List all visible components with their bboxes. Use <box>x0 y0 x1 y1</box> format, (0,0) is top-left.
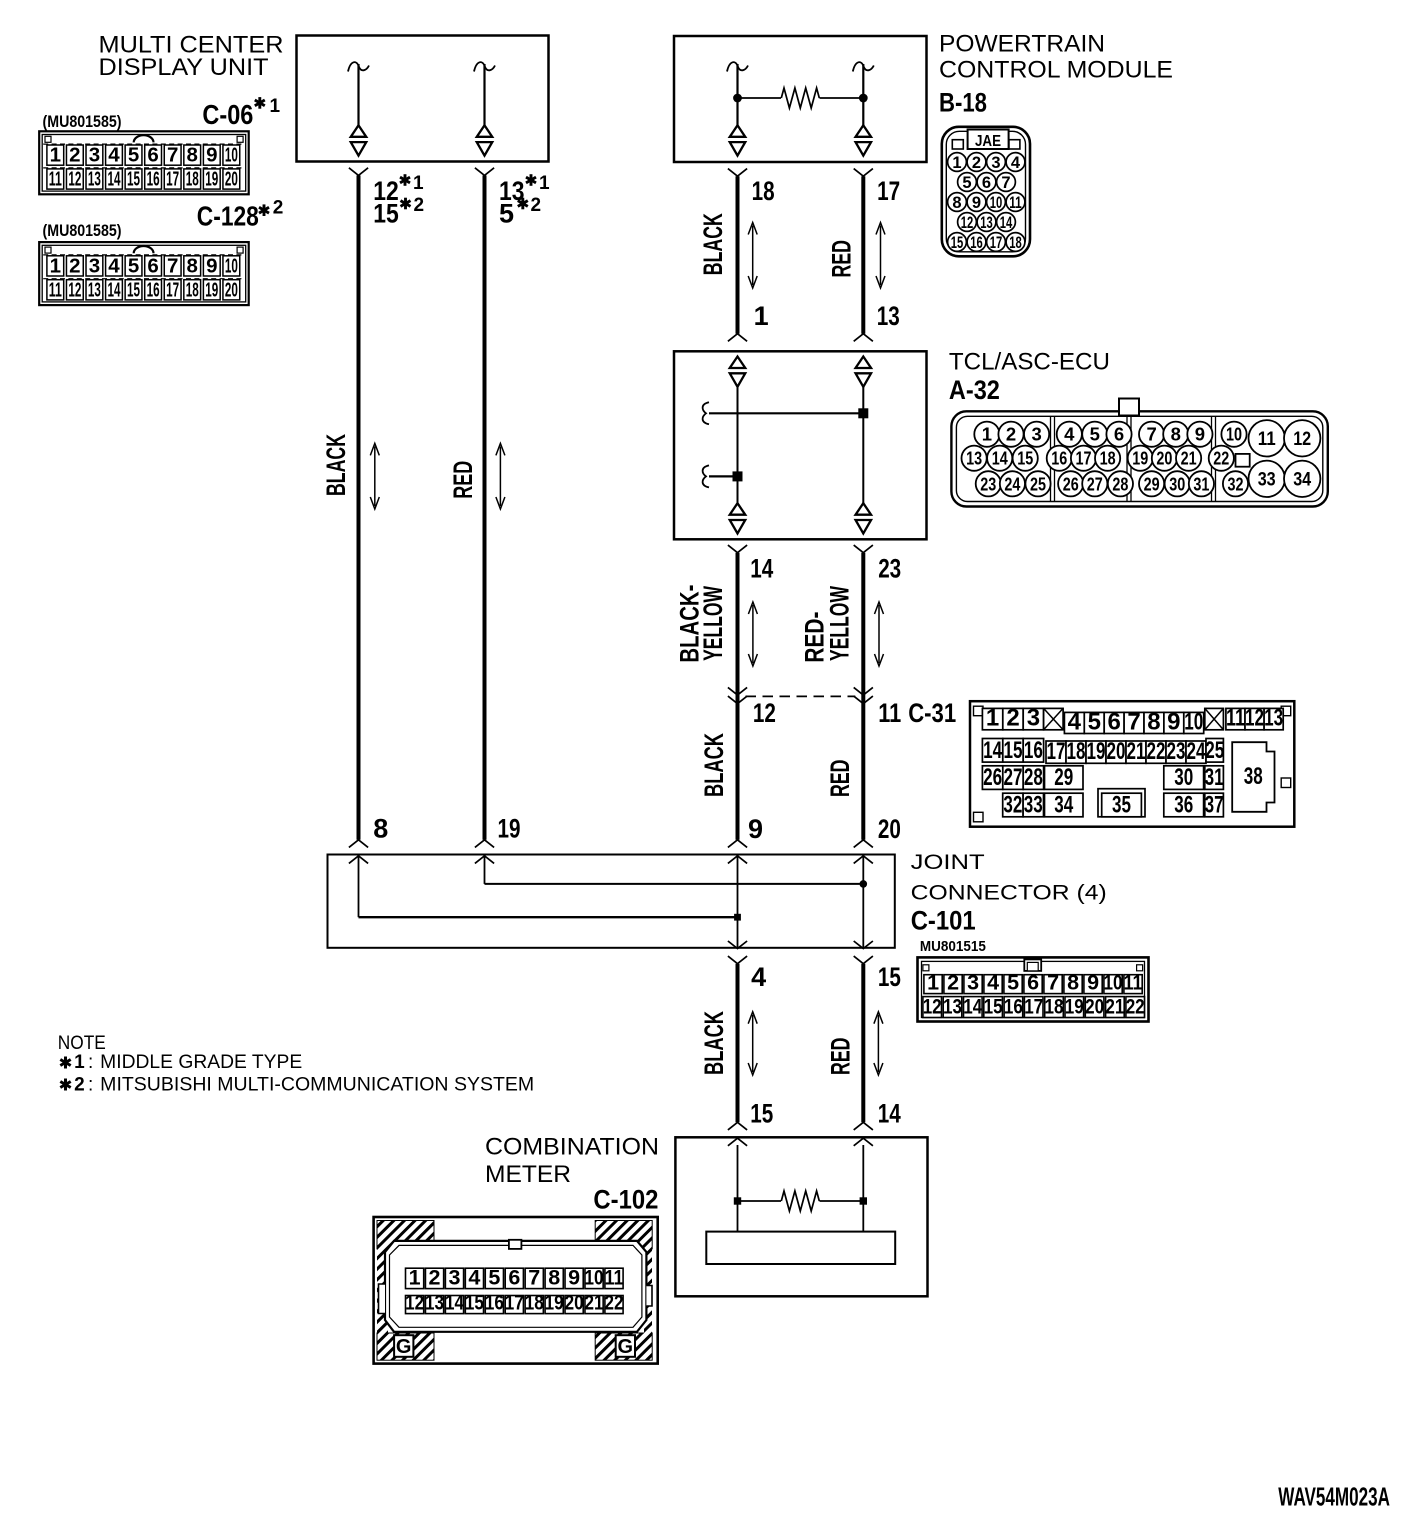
svg-text:1: 1 <box>927 970 939 994</box>
svg-text:1: 1 <box>982 424 992 445</box>
wire color label BLACK <box>698 213 728 275</box>
joint connector box <box>328 855 895 948</box>
svg-text:1: 1 <box>409 1265 421 1289</box>
svg-text:22: 22 <box>605 1290 624 1314</box>
svg-text:10: 10 <box>225 144 238 167</box>
connector A-32 drawing <box>951 399 1327 507</box>
svg-text:21: 21 <box>1181 448 1197 469</box>
multi center display unit box <box>297 36 549 162</box>
svg-text:3: 3 <box>89 144 100 167</box>
meter entry chevrons pin 14 <box>854 1138 873 1201</box>
svg-text:27: 27 <box>1087 473 1103 494</box>
svg-text:12: 12 <box>68 278 81 301</box>
svg-text:17: 17 <box>166 278 179 301</box>
svg-text:37: 37 <box>1205 792 1224 819</box>
svg-text:14: 14 <box>963 994 982 1018</box>
svg-text:RED: RED <box>448 461 478 499</box>
svg-text:34: 34 <box>1293 469 1311 491</box>
svg-text:3: 3 <box>89 254 100 277</box>
svg-text:5: 5 <box>1088 708 1101 735</box>
svg-text:11: 11 <box>605 1265 624 1289</box>
wire PCM pin18 to TCL pin1 (BLACK) <box>728 169 747 342</box>
svg-text:4: 4 <box>1064 424 1075 445</box>
svg-text:22: 22 <box>1213 448 1229 469</box>
PCM terminating resistor <box>733 88 868 108</box>
connector C-101 label <box>911 906 976 936</box>
svg-text:4: 4 <box>751 962 766 992</box>
wire TCL pin14 to C-31 pin12 (BLACK-YELLOW) <box>728 545 747 840</box>
svg-text:6: 6 <box>1107 708 1120 735</box>
svg-text:11: 11 <box>1258 428 1276 450</box>
figure number WAV54M023A <box>1278 1484 1390 1512</box>
svg-text:16: 16 <box>147 278 160 301</box>
joint entry chevrons pin 19 <box>475 840 494 864</box>
svg-text:YELLOW: YELLOW <box>698 586 728 661</box>
svg-text:12: 12 <box>961 214 974 232</box>
svg-text:29: 29 <box>1144 473 1160 494</box>
svg-text:16: 16 <box>147 168 160 191</box>
svg-text:16: 16 <box>1024 737 1043 764</box>
svg-text:28: 28 <box>1024 764 1043 791</box>
svg-text:14: 14 <box>983 737 1002 764</box>
svg-text:13: 13 <box>1264 705 1283 732</box>
pin label 14 above meter <box>878 1099 901 1129</box>
svg-text:CONTROL MODULE: CONTROL MODULE <box>939 57 1173 84</box>
svg-text:1: 1 <box>413 173 424 194</box>
svg-text:31: 31 <box>1193 473 1209 494</box>
svg-text:7: 7 <box>1146 424 1156 445</box>
wire color label RED left <box>448 461 478 499</box>
svg-text:8: 8 <box>1147 708 1160 735</box>
svg-text:1: 1 <box>754 301 769 331</box>
svg-text:2: 2 <box>69 254 80 277</box>
svg-text::: : <box>88 1052 93 1073</box>
svg-text:15: 15 <box>373 199 399 229</box>
svg-text:28: 28 <box>1112 473 1128 494</box>
svg-text:33: 33 <box>1024 792 1043 819</box>
note *1 middle grade type <box>60 1052 302 1073</box>
svg-text:36: 36 <box>1174 792 1193 819</box>
wire color label RED lower <box>825 760 855 798</box>
svg-text:RED: RED <box>826 240 856 278</box>
svg-text:7: 7 <box>1001 174 1010 192</box>
svg-text:15: 15 <box>465 1290 484 1314</box>
svg-text:3: 3 <box>1027 705 1040 732</box>
joint internal wire from pin 19 to pin 15 bus <box>485 856 868 888</box>
svg-text:15: 15 <box>984 994 1003 1018</box>
connector C-31 drawing <box>970 701 1294 827</box>
double arrow RED bottom <box>874 1012 883 1075</box>
svg-text:5: 5 <box>499 199 514 229</box>
svg-text:31: 31 <box>1205 764 1224 791</box>
svg-text:1: 1 <box>986 705 999 732</box>
svg-text:2: 2 <box>414 195 425 216</box>
svg-text:4: 4 <box>1068 708 1082 735</box>
svg-text:6: 6 <box>982 174 991 192</box>
connector C-06 drawing <box>39 131 249 194</box>
svg-text:BLACK: BLACK <box>698 213 728 275</box>
double arrow BLACK <box>748 223 757 289</box>
svg-text:BLACK: BLACK <box>321 434 351 496</box>
svg-text:7: 7 <box>1047 970 1059 994</box>
note *2 mitsubishi multi-communication system <box>60 1074 534 1095</box>
pin label 17 <box>877 176 900 206</box>
svg-text:23: 23 <box>980 473 996 494</box>
connector C-102 label <box>593 1185 658 1215</box>
svg-text:20: 20 <box>225 168 238 191</box>
pin label 11 and connector C-31 label <box>878 698 956 728</box>
svg-text:9: 9 <box>568 1265 580 1289</box>
svg-text:1: 1 <box>50 254 61 277</box>
svg-text:9: 9 <box>206 254 217 277</box>
joint entry chevrons pin 9 <box>728 840 747 864</box>
svg-text:COMBINATION: COMBINATION <box>485 1134 659 1161</box>
svg-text:C-31: C-31 <box>908 698 956 728</box>
svg-text:BLACK: BLACK <box>699 733 729 797</box>
svg-text:METER: METER <box>485 1161 571 1188</box>
svg-text:15: 15 <box>1017 448 1033 469</box>
connector C-128 drawing <box>39 242 249 305</box>
svg-text:8: 8 <box>373 814 388 844</box>
combination meter label <box>485 1134 659 1188</box>
svg-text:JAE: JAE <box>975 133 1001 150</box>
svg-text:16: 16 <box>970 234 983 252</box>
C-31 dashed link line <box>746 695 856 697</box>
svg-text:8: 8 <box>187 254 198 277</box>
TCL internal stub pin 13 <box>856 357 872 504</box>
svg-text:1: 1 <box>50 144 61 167</box>
svg-text:10: 10 <box>1226 424 1242 445</box>
svg-text:38: 38 <box>1244 763 1263 790</box>
svg-text:5: 5 <box>488 1265 500 1289</box>
svg-text:18: 18 <box>1009 234 1022 252</box>
pin label 12*1 15*2 <box>373 173 424 229</box>
svg-text:3: 3 <box>967 970 979 994</box>
svg-text:7: 7 <box>167 144 178 167</box>
svg-text:18: 18 <box>525 1290 544 1314</box>
wire color label RED-YELLOW <box>800 586 855 663</box>
svg-text:18: 18 <box>1067 738 1086 765</box>
svg-text:2: 2 <box>947 970 959 994</box>
svg-text:24: 24 <box>1004 473 1021 494</box>
joint entry chevrons pin 20 <box>854 840 873 864</box>
svg-text:21: 21 <box>1105 994 1124 1018</box>
svg-text:12: 12 <box>753 698 776 728</box>
svg-text:15: 15 <box>878 962 901 992</box>
svg-text:17: 17 <box>166 168 179 191</box>
svg-text:25: 25 <box>1205 737 1224 764</box>
svg-text:32: 32 <box>1003 792 1022 819</box>
svg-text:13: 13 <box>877 301 900 331</box>
connector C-102 drawing <box>374 1217 658 1364</box>
svg-text:8: 8 <box>548 1265 560 1289</box>
svg-text:20: 20 <box>565 1290 584 1314</box>
TCL internal stub pin 14 bottom triangles <box>730 503 746 533</box>
svg-text:25: 25 <box>1030 473 1046 494</box>
svg-text:1: 1 <box>270 96 281 117</box>
meter internal resistor <box>734 1191 867 1232</box>
svg-text:14: 14 <box>992 448 1009 469</box>
svg-text:9: 9 <box>1087 970 1099 994</box>
double arrow BLACK-YELLOW <box>748 602 757 666</box>
joint exit chevrons pin 4 <box>728 941 747 964</box>
svg-text:(MU801585): (MU801585) <box>43 112 122 131</box>
svg-text:26: 26 <box>983 764 1002 791</box>
connector C-101 drawing <box>918 957 1149 1021</box>
wire pin12/15 to joint C-101 pin 8 (BLACK) <box>349 168 368 840</box>
pin label 15 above meter <box>750 1099 773 1129</box>
svg-text:9: 9 <box>748 814 763 844</box>
svg-text:2: 2 <box>1006 424 1016 445</box>
svg-text:10: 10 <box>990 194 1003 212</box>
svg-text:10: 10 <box>225 254 238 277</box>
svg-text:22: 22 <box>1147 738 1166 765</box>
svg-text:8: 8 <box>952 194 961 212</box>
svg-text:4: 4 <box>108 144 120 167</box>
svg-text:BLACK: BLACK <box>699 1011 729 1075</box>
svg-text:8: 8 <box>187 144 198 167</box>
svg-text:13: 13 <box>88 278 101 301</box>
svg-text:14: 14 <box>878 1099 901 1129</box>
wire PCM pin17 to TCL pin13 (RED) <box>854 169 873 342</box>
wire color label RED <box>826 240 856 278</box>
svg-text:19: 19 <box>1132 448 1148 469</box>
svg-text:A-32: A-32 <box>949 375 1000 405</box>
powertrain control module box <box>674 36 927 162</box>
svg-text:18: 18 <box>186 278 199 301</box>
svg-text:14: 14 <box>750 554 773 584</box>
wire joint pin4 to meter pin15 (BLACK) <box>728 964 747 1130</box>
pin label 12 <box>753 698 776 728</box>
connector C-128 part number MU801585 <box>43 221 122 240</box>
svg-text:2: 2 <box>531 195 542 216</box>
TCL internal stub pin 23 bottom triangles <box>856 503 872 533</box>
svg-text:YELLOW: YELLOW <box>824 586 854 661</box>
svg-text:12: 12 <box>1293 428 1311 450</box>
svg-text:11: 11 <box>1009 194 1022 212</box>
svg-text:10: 10 <box>1184 708 1203 735</box>
svg-text:15: 15 <box>127 278 140 301</box>
joint entry chevrons pin 8 <box>349 840 368 864</box>
svg-text:19: 19 <box>1065 994 1084 1018</box>
MCD internal stub pin 12/15 <box>348 62 369 155</box>
svg-text:MIDDLE GRADE TYPE: MIDDLE GRADE TYPE <box>100 1052 302 1073</box>
svg-text:9: 9 <box>1167 708 1180 735</box>
double arrow left RED <box>496 443 505 509</box>
connector B-18 drawing <box>942 127 1030 256</box>
svg-text:4: 4 <box>468 1265 480 1289</box>
svg-text:13: 13 <box>88 168 101 191</box>
pin label 13*1 5*2 <box>499 173 550 229</box>
svg-text:19: 19 <box>545 1290 564 1314</box>
powertrain control module label <box>939 31 1173 84</box>
svg-text:MU801515: MU801515 <box>920 938 986 955</box>
svg-text:14: 14 <box>445 1290 464 1314</box>
svg-text::: : <box>88 1074 93 1095</box>
svg-text:3: 3 <box>1031 424 1041 445</box>
svg-text:4: 4 <box>987 970 999 994</box>
TCL/ASC-ECU box <box>674 351 927 539</box>
svg-text:5: 5 <box>128 254 139 277</box>
svg-text:3: 3 <box>448 1265 460 1289</box>
svg-text:1: 1 <box>74 1052 85 1073</box>
svg-text:12: 12 <box>923 994 942 1018</box>
svg-text:9: 9 <box>206 144 217 167</box>
pin label 14 <box>750 554 773 584</box>
svg-text:2: 2 <box>74 1074 85 1095</box>
svg-text:19: 19 <box>1087 738 1106 765</box>
svg-text:6: 6 <box>1114 424 1124 445</box>
svg-text:29: 29 <box>1054 764 1073 791</box>
combination meter box <box>675 1137 927 1296</box>
pin label 20 <box>878 814 901 844</box>
svg-text:15: 15 <box>951 234 964 252</box>
svg-text:17: 17 <box>505 1290 524 1314</box>
svg-text:11: 11 <box>49 278 62 301</box>
svg-text:5: 5 <box>1090 424 1100 445</box>
svg-text:15: 15 <box>1004 737 1023 764</box>
svg-text:33: 33 <box>1258 469 1276 491</box>
inline connector C-31 crossing right <box>854 687 873 703</box>
svg-text:20: 20 <box>878 814 901 844</box>
svg-text:6: 6 <box>147 144 158 167</box>
svg-text:9: 9 <box>1195 424 1205 445</box>
wire pin13/5 to joint C-101 pin 19 (RED) <box>475 168 494 840</box>
svg-text:13: 13 <box>966 448 982 469</box>
joint internal wire pin 20 to pin 15 <box>862 856 864 948</box>
svg-text:10: 10 <box>585 1265 604 1289</box>
PCM internal stub pin 18 <box>727 62 748 155</box>
pin label 8 <box>373 814 388 844</box>
svg-text:17: 17 <box>1076 448 1092 469</box>
svg-text:7: 7 <box>528 1265 540 1289</box>
svg-text:5: 5 <box>962 174 971 192</box>
double arrow left BLACK <box>370 443 379 509</box>
svg-text:27: 27 <box>1004 764 1023 791</box>
svg-text:7: 7 <box>1127 708 1140 735</box>
svg-text:CONNECTOR (4): CONNECTOR (4) <box>911 881 1107 905</box>
wire color label BLACK bottom <box>699 1011 729 1075</box>
wire joint pin15 to meter pin14 (RED) <box>854 964 873 1130</box>
svg-text:C-06: C-06 <box>202 99 253 130</box>
meter entry chevrons pin 15 <box>728 1138 747 1201</box>
svg-text:17: 17 <box>877 176 900 206</box>
svg-text:32: 32 <box>1228 473 1244 494</box>
svg-text:23: 23 <box>878 554 901 584</box>
pin label 13 <box>877 301 900 331</box>
double arrow RED <box>876 223 885 289</box>
svg-text:MITSUBISHI MULTI-COMMUNICATION: MITSUBISHI MULTI-COMMUNICATION SYSTEM <box>100 1074 534 1095</box>
pin label 19 <box>498 814 521 844</box>
connector C-128 label <box>197 198 283 232</box>
svg-text:19: 19 <box>205 168 218 191</box>
svg-text:11: 11 <box>1124 970 1143 994</box>
svg-text:6: 6 <box>147 254 158 277</box>
pin label 9 <box>748 814 763 844</box>
svg-text:2: 2 <box>273 198 284 219</box>
svg-text:POWERTRAIN: POWERTRAIN <box>939 31 1105 58</box>
svg-text:2: 2 <box>69 144 80 167</box>
svg-text:13: 13 <box>943 994 962 1018</box>
wire color label RED bottom <box>826 1038 856 1076</box>
pin label 18 <box>752 176 775 206</box>
svg-text:WAV54M023A: WAV54M023A <box>1278 1484 1390 1512</box>
meter internal unit box <box>706 1232 895 1264</box>
connector B-18 label <box>939 88 987 118</box>
connector C-06 label <box>202 96 280 130</box>
svg-text:23: 23 <box>1167 738 1186 765</box>
multi center display unit label <box>99 32 284 82</box>
svg-text:20: 20 <box>1156 448 1172 469</box>
svg-text:4: 4 <box>1011 154 1021 172</box>
svg-text:12: 12 <box>405 1290 424 1314</box>
svg-text:14: 14 <box>107 278 120 301</box>
TCL internal bus line upper <box>703 402 869 424</box>
svg-text:G: G <box>396 1336 412 1358</box>
svg-text:13: 13 <box>425 1290 444 1314</box>
TCL internal bus line lower <box>703 465 743 487</box>
svg-text:DISPLAY UNIT: DISPLAY UNIT <box>99 54 269 81</box>
MCD internal stub pin 13/5 <box>474 62 495 155</box>
svg-text:5: 5 <box>1007 970 1019 994</box>
svg-text:C-128: C-128 <box>197 201 259 232</box>
svg-text:9: 9 <box>972 194 981 212</box>
svg-text:6: 6 <box>508 1265 520 1289</box>
wire color label BLACK left <box>321 434 351 496</box>
joint exit chevrons pin 15 <box>854 941 873 964</box>
svg-text:C-101: C-101 <box>911 906 976 936</box>
svg-text:20: 20 <box>1107 738 1126 765</box>
svg-text:11: 11 <box>49 168 62 191</box>
svg-text:C-102: C-102 <box>593 1185 658 1215</box>
svg-text:11: 11 <box>878 698 901 728</box>
svg-text:21: 21 <box>585 1290 604 1314</box>
svg-text:JOINT: JOINT <box>911 850 985 874</box>
svg-text:20: 20 <box>1085 994 1104 1018</box>
svg-text:18: 18 <box>1045 994 1064 1018</box>
wire TCL pin23 to C-31 pin11 (RED-YELLOW) <box>854 545 873 840</box>
svg-text:6: 6 <box>1027 970 1039 994</box>
pin label 15 below joint <box>878 962 901 992</box>
pin label 23 <box>878 554 901 584</box>
joint internal wire from pin 8 to pin 4 bus <box>359 856 741 921</box>
svg-text:16: 16 <box>485 1290 504 1314</box>
svg-text:2: 2 <box>429 1265 441 1289</box>
double arrow RED-YELLOW <box>875 602 884 666</box>
svg-text:22: 22 <box>1126 994 1145 1018</box>
svg-text:G: G <box>618 1336 634 1358</box>
svg-text:(MU801585): (MU801585) <box>43 221 122 240</box>
svg-text:2: 2 <box>1006 705 1019 732</box>
svg-text:17: 17 <box>990 234 1003 252</box>
svg-text:14: 14 <box>107 168 120 191</box>
svg-text:10: 10 <box>1104 970 1123 994</box>
svg-text:14: 14 <box>1000 214 1013 232</box>
svg-text:1: 1 <box>539 173 550 194</box>
svg-text:20: 20 <box>225 278 238 301</box>
svg-text:19: 19 <box>498 814 521 844</box>
svg-text:8: 8 <box>1067 970 1079 994</box>
svg-text:B-18: B-18 <box>939 88 987 118</box>
note text <box>58 1033 106 1054</box>
svg-text:5: 5 <box>128 144 139 167</box>
svg-text:18: 18 <box>1100 448 1116 469</box>
connector A-32 label <box>949 375 1000 405</box>
svg-text:30: 30 <box>1169 473 1185 494</box>
inline connector C-31 crossing left <box>728 687 747 703</box>
svg-text:12: 12 <box>68 168 81 191</box>
svg-text:17: 17 <box>1047 738 1066 765</box>
